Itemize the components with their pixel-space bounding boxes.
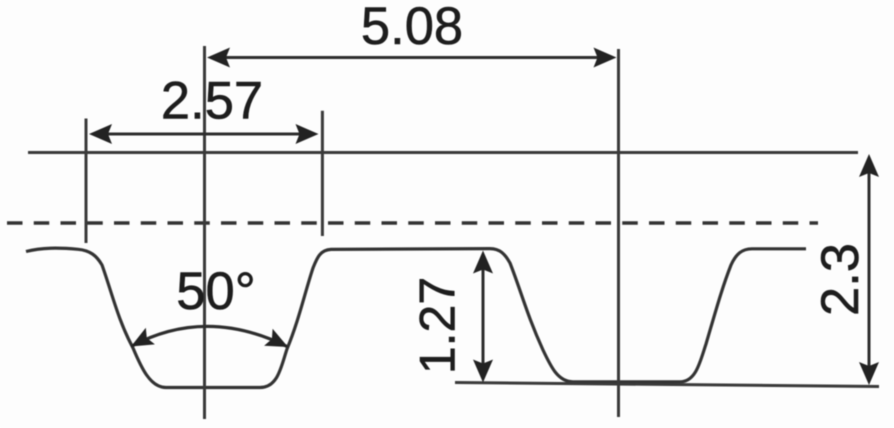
svg-text:1.27: 1.27 [410, 277, 466, 374]
svg-text:2.3: 2.3 [811, 243, 870, 316]
extension line right (2.57) [321, 111, 324, 236]
arrowhead 2.3 up [859, 154, 879, 177]
centerline tooth 1 [203, 46, 206, 419]
pitch line (dashed) [7, 221, 818, 225]
arrowhead arc right [264, 329, 288, 347]
extension line left (2.57) [85, 119, 88, 244]
arrowhead 1.27 down [473, 360, 493, 383]
arrowhead 1.27 up [473, 251, 493, 274]
dimension 5.08 line [218, 56, 606, 59]
belt top surface line [28, 151, 858, 154]
arrowhead 5.08 right [594, 48, 617, 68]
bottom extension line [455, 383, 879, 387]
dimension 1.27 line [482, 260, 485, 373]
belt tooth profile [26, 248, 806, 387]
arrowhead arc left [131, 328, 155, 347]
svg-text:5.08: 5.08 [361, 0, 463, 56]
svg-text:50°: 50° [176, 262, 255, 321]
arrowhead 2.57 left [89, 124, 112, 144]
arrowhead 2.3 down [859, 362, 879, 385]
arrowhead 5.08 left [207, 48, 230, 68]
dimension 2.57 line [99, 133, 309, 136]
centerline tooth 2 [617, 49, 620, 417]
dimension 2.3 line [868, 163, 871, 376]
svg-text:2.57: 2.57 [161, 72, 263, 131]
angle arc 50 [131, 326, 288, 347]
arrowhead 2.57 right [296, 124, 319, 144]
